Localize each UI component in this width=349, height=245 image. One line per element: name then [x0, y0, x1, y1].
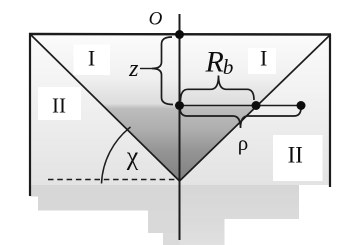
- svg-text:ρ: ρ: [238, 131, 248, 155]
- svg-text:O: O: [149, 9, 163, 30]
- svg-text:z: z: [128, 56, 139, 82]
- svg-text:χ: χ: [126, 142, 139, 171]
- svg-text:I: I: [260, 46, 267, 71]
- svg-text:II: II: [52, 94, 66, 118]
- svg-text:I: I: [88, 45, 95, 70]
- svg-text:II: II: [288, 143, 303, 168]
